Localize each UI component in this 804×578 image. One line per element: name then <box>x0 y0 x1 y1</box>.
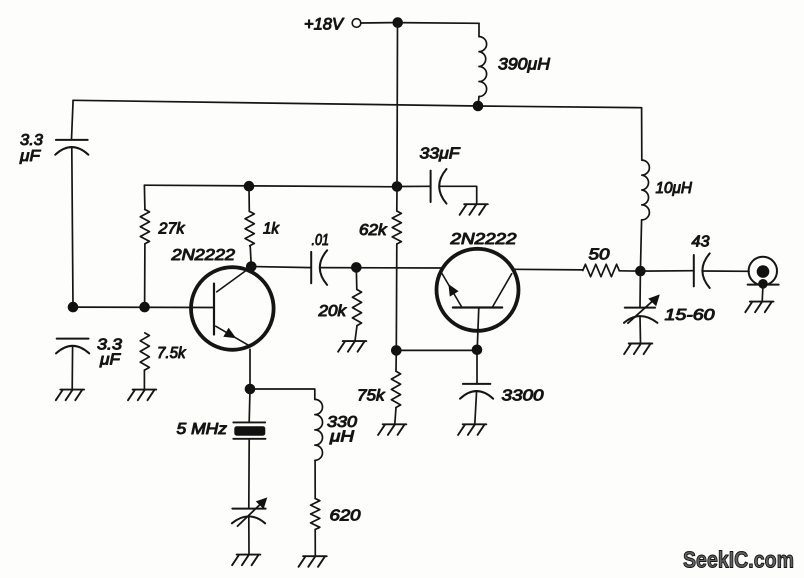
wire 10uH top to rail <box>641 108 643 160</box>
node 390uH-rail <box>473 101 484 112</box>
svg-text:μF: μF <box>99 352 121 369</box>
wire Q1 emitter down <box>249 349 251 389</box>
node 1k top <box>244 181 255 192</box>
svg-text:.01: .01 <box>312 232 330 249</box>
wire node C to 75k <box>395 350 397 371</box>
transistor Q2 2N2222 <box>437 249 519 331</box>
node Q2 base junction <box>472 345 483 356</box>
svg-text:20k: 20k <box>317 303 347 320</box>
inductor 390uH <box>479 37 487 97</box>
svg-text:1k: 1k <box>263 221 280 238</box>
svg-text:SeekIC.com: SeekIC.com <box>683 547 794 573</box>
svg-text:10μH: 10μH <box>656 180 693 197</box>
ground below 7.5k <box>128 390 156 401</box>
wire C2 to ground <box>71 346 73 389</box>
output connector J1 <box>749 257 777 285</box>
resistor 1k <box>245 212 254 246</box>
capacitor .01 <box>310 252 312 283</box>
wire node D down to VC2 <box>639 271 641 308</box>
wire node B up to 27k <box>144 244 146 307</box>
resistor 62k <box>392 211 401 244</box>
node Q1 emitter junction <box>245 384 256 395</box>
wire 620 to ground <box>314 530 316 556</box>
resistor 7.5k <box>140 333 149 370</box>
wire emitter node right <box>250 389 315 399</box>
svg-text:3300: 3300 <box>502 388 544 405</box>
wire bias rail <box>144 185 397 187</box>
node 20k top <box>351 262 362 273</box>
capacitor C2 3.3uF <box>57 338 89 340</box>
resistor 50 <box>583 264 619 276</box>
resistor 27k <box>140 210 149 244</box>
wire node to 390uH top <box>398 22 479 25</box>
wire corner down to 390uH <box>478 23 480 36</box>
power terminal +18V <box>352 19 361 28</box>
svg-text:+18V: +18V <box>304 16 345 34</box>
svg-text:2N2222: 2N2222 <box>449 231 517 248</box>
wire left rail corner down to C1 <box>72 100 74 139</box>
wire 75k to ground <box>395 408 396 425</box>
svg-text:390μH: 390μH <box>498 55 551 74</box>
transistor Q1 2N2222 <box>191 267 274 350</box>
ground below VC1 <box>232 555 260 566</box>
node bias divider (62k top) <box>392 181 403 192</box>
node D output junction <box>635 266 646 277</box>
wire +18V down feed <box>396 23 399 187</box>
wire Q2 base node down to 3300 <box>476 350 478 384</box>
wire VC1 to ground <box>248 517 250 554</box>
ground below C2 <box>56 390 84 401</box>
svg-text:15-60: 15-60 <box>665 307 715 324</box>
capacitor 3300 <box>463 383 490 385</box>
node C divider junction <box>391 345 402 356</box>
ground below 75k <box>378 424 406 435</box>
wire node A to base rail <box>73 306 214 308</box>
wire crystal to VC1 <box>248 439 250 508</box>
variable capacitor VC2 15-60 <box>625 307 655 309</box>
node Q1 collector <box>246 261 257 272</box>
svg-text:33μF: 33μF <box>420 146 462 163</box>
ground below VC2 <box>624 344 652 355</box>
svg-text:62k: 62k <box>359 222 388 239</box>
ground below 620 <box>299 556 327 567</box>
wire 390uH to rail node <box>478 97 479 107</box>
wire 20k to ground <box>355 326 357 341</box>
ground below connector <box>745 302 773 313</box>
wire 33uF right + bend to ground <box>439 186 476 204</box>
wire 43 to output connector <box>702 270 749 272</box>
node B (7.5k top) <box>139 302 150 313</box>
variable capacitor VC1 <box>232 508 265 510</box>
resistor 620 <box>311 499 320 530</box>
wire 10uH bottom to node D <box>640 220 641 271</box>
wire connector to ground <box>761 285 764 302</box>
svg-text:50: 50 <box>589 247 610 264</box>
node A (left junction) <box>68 302 79 313</box>
resistor 20k <box>352 290 361 326</box>
node at +18V rail <box>392 17 403 28</box>
wire 1k top <box>248 186 250 211</box>
svg-text:27k: 27k <box>157 221 185 238</box>
wire .01 left <box>251 267 311 268</box>
capacitor 33uF <box>430 171 432 202</box>
inductor 10uH <box>642 160 650 220</box>
wire 33uF left <box>397 185 431 187</box>
svg-text:7.5k: 7.5k <box>157 345 187 362</box>
wire 3300 to ground <box>475 391 477 424</box>
wire 27k up to corner <box>143 185 146 209</box>
crystal Y1 5MHz <box>233 421 265 423</box>
wire 62k top <box>396 187 398 212</box>
wire terminal to node <box>361 22 392 24</box>
svg-text:620: 620 <box>330 508 361 525</box>
wire top feedback rail <box>73 100 642 107</box>
wire 1k to collector node <box>250 246 251 267</box>
wire 7.5k bottom to ground <box>143 370 145 389</box>
wire Q1 emitter node to crystal <box>248 389 251 422</box>
svg-text:43: 43 <box>692 234 710 251</box>
wire 62k down to node C <box>395 244 398 350</box>
capacitor C1 3.3uF <box>56 139 88 141</box>
ground below 33uF <box>460 204 488 215</box>
svg-text:3.3: 3.3 <box>20 132 43 149</box>
ground below 3300 <box>458 424 486 435</box>
wire 20k top <box>355 267 358 289</box>
wire C1 down to node A <box>72 148 73 308</box>
capacitor 43 <box>693 255 695 286</box>
svg-text:75k: 75k <box>357 388 386 405</box>
svg-text:μH: μH <box>329 429 355 446</box>
wire Q2 collector right <box>514 268 583 271</box>
wire 330uH to 620 <box>314 460 316 498</box>
svg-text:5 MHz: 5 MHz <box>177 421 228 438</box>
wire node D to 43 cap <box>640 270 693 272</box>
svg-text:μF: μF <box>19 148 41 165</box>
svg-text:2N2222: 2N2222 <box>170 247 235 264</box>
wire 50 to node D <box>619 270 640 272</box>
inductor 330uH <box>315 399 323 460</box>
wire .01 to Q2 emitter <box>320 267 442 269</box>
wire VC2 to ground <box>639 316 642 343</box>
ground below 20k <box>338 341 366 352</box>
resistor 75k <box>391 371 400 407</box>
wire node C to Q2 base node <box>396 349 477 351</box>
